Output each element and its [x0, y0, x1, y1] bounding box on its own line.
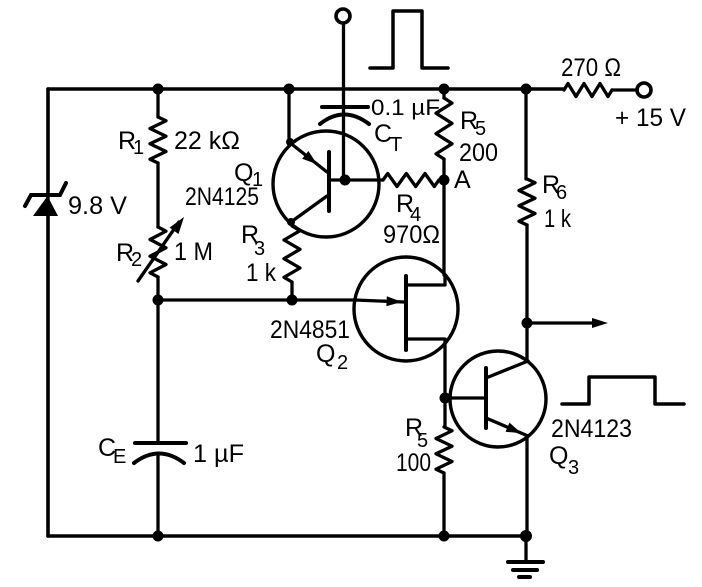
zener wire top: [46, 89, 49, 194]
svg-text:3: 3: [568, 457, 579, 479]
Q3 base bar: [484, 368, 488, 428]
resistor R5 (200): [436, 98, 452, 159]
wire R1 top: [156, 89, 159, 117]
input pulse waveform: [370, 11, 448, 68]
resistor R2 (variable): [150, 227, 166, 277]
junction dot Q1 collector / R3: [287, 218, 295, 226]
Q1 collector line: [291, 196, 327, 222]
Q1 base line to R4: [329, 178, 383, 181]
svg-text:Q: Q: [316, 340, 335, 368]
wire R3 bottom: [290, 282, 293, 300]
svg-text:1: 1: [133, 137, 144, 159]
wire left rail: [46, 89, 49, 536]
Q1 emitter arrowhead: [302, 151, 317, 164]
wire mid horizontal (R2/R3 to Q2 gate): [158, 298, 355, 301]
junction dot Q1 base / CT: [340, 175, 351, 186]
wire Q2 source down to R5(100): [443, 343, 446, 427]
wire Q1 emitter up to rail: [287, 89, 290, 142]
svg-text:1 M: 1 M: [174, 238, 213, 266]
Q3 emitter line: [486, 418, 528, 436]
wire terminal through CT to Q1 base: [342, 23, 345, 180]
svg-text:2N4125: 2N4125: [185, 183, 259, 211]
wire Q3 base: [445, 396, 486, 399]
svg-text:1 k: 1 k: [544, 205, 571, 233]
transistor Q1 circle: [273, 131, 379, 237]
node A dot: [439, 175, 450, 186]
junction dot R5(100) / bottom rail: [439, 531, 450, 542]
wire rail to R6: [524, 89, 527, 179]
Q3 collector line: [486, 361, 528, 378]
junction dot Q3 emitter / bottom rail: [520, 530, 532, 542]
junction dot R2 / mid wire: [153, 295, 164, 306]
wire rail to R5: [442, 89, 445, 98]
capacitor CE bottom plate: [134, 454, 184, 464]
wire node A to Q2 drain: [442, 180, 445, 275]
svg-text:2N4123: 2N4123: [551, 415, 632, 443]
Q1 emitter line: [289, 142, 327, 172]
Q1 base bar: [327, 152, 331, 211]
Q3 emitter arrowhead: [506, 423, 522, 434]
zener bar: [25, 183, 66, 206]
transistor Q3 circle: [450, 351, 546, 447]
junction dot rail/R1: [153, 84, 164, 95]
+15V terminal: [637, 83, 651, 97]
junction dot R3 / mid wire: [287, 295, 298, 306]
svg-text:E: E: [113, 446, 126, 468]
junction dot Q1 emitter / circle: [286, 138, 294, 146]
svg-text:200: 200: [459, 139, 498, 167]
Q2 source lead: [406, 339, 445, 343]
resistor 270 ohm: [564, 84, 612, 97]
capacitor CT bottom plate: [320, 115, 369, 125]
wire R1-R2: [156, 163, 159, 227]
svg-text:3: 3: [254, 238, 265, 260]
resistor R6: [519, 179, 535, 225]
svg-text:270 Ω: 270 Ω: [561, 54, 621, 82]
svg-text:5: 5: [475, 118, 486, 140]
junction dot rail/R6: [521, 84, 532, 95]
capacitor CE top plate: [135, 441, 186, 445]
resistor R4: [383, 174, 439, 187]
wire output node to Q3 collector: [525, 323, 528, 361]
wire Q3 emitter down: [525, 436, 528, 536]
wire top rail: [48, 87, 563, 91]
svg-text:100: 100: [396, 449, 431, 477]
resistor R5 (100): [436, 427, 452, 473]
wire mid node to CE: [156, 300, 159, 443]
svg-text:2: 2: [131, 249, 142, 271]
wire R5(100) bottom: [442, 473, 445, 536]
input terminal: [336, 9, 350, 23]
junction dot rail/Q1 emitter: [284, 84, 295, 95]
wire bottom rail: [48, 534, 527, 538]
zener wire bottom: [46, 216, 49, 536]
svg-text:970Ω: 970Ω: [383, 221, 440, 249]
wire R6 to output node: [525, 225, 528, 323]
junction dot CE / bottom rail: [153, 531, 164, 542]
svg-text:Q: Q: [549, 442, 568, 470]
svg-text:0.1 µF: 0.1 µF: [371, 95, 440, 120]
svg-text:1 k: 1 k: [246, 259, 276, 287]
wire R2 bottom: [156, 277, 159, 300]
capacitor CT top plate: [322, 105, 368, 109]
resistor R3: [284, 226, 300, 282]
wire R5 to node A: [442, 159, 445, 180]
svg-text:T: T: [390, 134, 402, 156]
svg-text:22 kΩ: 22 kΩ: [174, 127, 240, 155]
svg-text:6: 6: [556, 182, 567, 204]
output arrowhead: [592, 318, 608, 328]
svg-text:A: A: [454, 166, 471, 194]
svg-text:2: 2: [337, 352, 348, 374]
svg-text:2N4851: 2N4851: [270, 316, 350, 344]
Q2 channel bar: [404, 276, 408, 350]
Q2 gate line: [355, 300, 404, 302]
ground: [524, 536, 527, 561]
svg-text:+ 15 V: + 15 V: [615, 104, 686, 132]
Q2 drain lead: [406, 275, 445, 285]
junction dot Q2 source / Q3 base: [440, 393, 451, 404]
zener diode triangle: [33, 196, 58, 216]
junction dot rail/R5: [439, 84, 450, 95]
svg-text:9.8 V: 9.8 V: [68, 192, 127, 220]
wire CE bottom: [156, 455, 159, 536]
svg-text:1 µF: 1 µF: [193, 440, 244, 468]
R2 wiper arrowhead: [170, 217, 184, 234]
resistor R1: [150, 117, 166, 163]
output square waveform: [562, 377, 684, 404]
transistor Q2 circle (JFET): [354, 257, 458, 361]
junction dot output node: [522, 318, 533, 329]
Q2 gate arrowhead: [386, 296, 401, 306]
output arrow line: [527, 321, 594, 324]
